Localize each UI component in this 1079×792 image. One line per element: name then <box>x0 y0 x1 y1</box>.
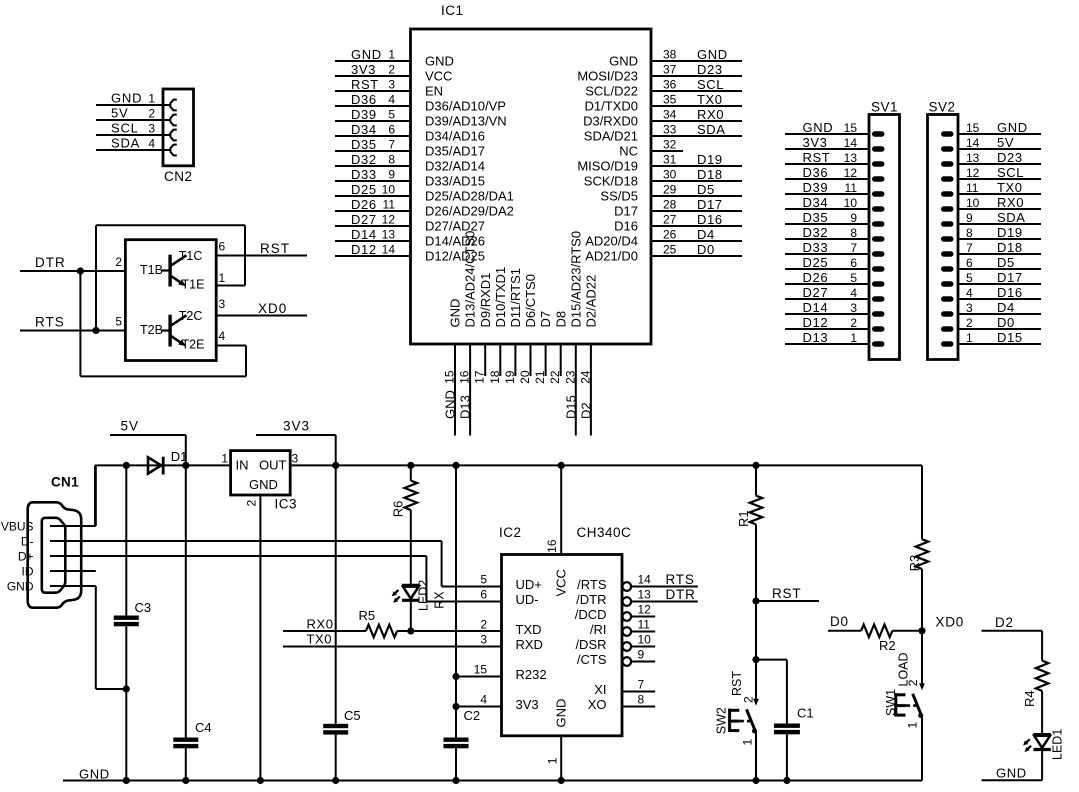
svg-text:R232: R232 <box>516 667 547 682</box>
svg-text:SV2: SV2 <box>929 100 956 115</box>
svg-text:13: 13 <box>638 588 652 602</box>
svg-text:/DCD: /DCD <box>575 607 607 622</box>
svg-text:14: 14 <box>844 136 858 150</box>
svg-text:30: 30 <box>663 168 677 182</box>
svg-text:D18: D18 <box>997 240 1023 255</box>
svg-text:19: 19 <box>503 370 517 384</box>
svg-text:IN: IN <box>236 458 249 473</box>
svg-text:9: 9 <box>638 648 645 662</box>
svg-text:TX0: TX0 <box>307 631 333 646</box>
svg-text:1: 1 <box>388 48 395 62</box>
svg-text:IC2: IC2 <box>499 525 522 540</box>
svg-text:LED2: LED2 <box>417 580 431 611</box>
svg-text:XI: XI <box>594 682 606 697</box>
svg-text:SDA: SDA <box>111 136 140 151</box>
svg-text:D17: D17 <box>614 204 638 219</box>
svg-text:DTR: DTR <box>35 255 66 270</box>
svg-text:/DTR: /DTR <box>576 592 606 607</box>
svg-text:CH340C: CH340C <box>577 525 632 540</box>
svg-text:D19: D19 <box>997 225 1023 240</box>
svg-text:C2: C2 <box>464 708 481 723</box>
svg-text:R3: R3 <box>907 555 922 572</box>
svg-text:3V3: 3V3 <box>516 697 539 712</box>
svg-text:D27: D27 <box>351 212 377 227</box>
svg-text:D35/AD17: D35/AD17 <box>425 144 485 159</box>
svg-text:D34: D34 <box>803 195 829 210</box>
svg-text:2: 2 <box>245 500 259 507</box>
svg-text:3V3: 3V3 <box>283 419 310 434</box>
svg-text:SW2: SW2 <box>714 707 728 734</box>
svg-text:D7: D7 <box>538 311 553 328</box>
svg-text:D16: D16 <box>997 285 1023 300</box>
svg-text:29: 29 <box>663 183 677 197</box>
svg-text:D14: D14 <box>803 300 829 315</box>
svg-text:4: 4 <box>966 286 973 300</box>
svg-text:AD20/D4: AD20/D4 <box>585 234 638 249</box>
svg-text:IC1: IC1 <box>441 3 464 18</box>
svg-text:D0: D0 <box>830 614 849 629</box>
svg-text:R5: R5 <box>359 608 376 623</box>
svg-text:RST: RST <box>803 150 831 165</box>
svg-text:4: 4 <box>148 137 155 151</box>
svg-text:D25/AD28/DA1: D25/AD28/DA1 <box>425 189 514 204</box>
svg-text:D36: D36 <box>803 165 829 180</box>
svg-text:D39: D39 <box>351 107 377 122</box>
svg-text:D12: D12 <box>803 315 829 330</box>
svg-text:/RI: /RI <box>590 622 607 637</box>
svg-text:34: 34 <box>663 108 677 122</box>
svg-text:6: 6 <box>219 240 226 254</box>
svg-text:NC: NC <box>619 144 638 159</box>
svg-text:D32/AD14: D32/AD14 <box>425 159 485 174</box>
svg-text:LOAD: LOAD <box>897 652 911 686</box>
svg-text:15: 15 <box>966 121 980 135</box>
svg-text:D13: D13 <box>458 395 473 419</box>
svg-text:8: 8 <box>638 693 645 707</box>
svg-text:D18: D18 <box>697 167 723 182</box>
svg-text:D25: D25 <box>351 182 377 197</box>
svg-text:SDA: SDA <box>997 210 1026 225</box>
svg-text:GND: GND <box>803 120 834 135</box>
svg-text:D39: D39 <box>803 180 829 195</box>
svg-text:5: 5 <box>115 315 122 329</box>
svg-text:10: 10 <box>844 196 858 210</box>
svg-text:8: 8 <box>388 153 395 167</box>
svg-text:D39/AD13/VN: D39/AD13/VN <box>425 114 507 129</box>
svg-text:D33/AD15: D33/AD15 <box>425 174 485 189</box>
svg-text:GND: GND <box>425 54 454 69</box>
svg-text:7: 7 <box>638 678 645 692</box>
svg-text:4: 4 <box>480 693 487 707</box>
svg-text:22: 22 <box>548 370 562 384</box>
svg-text:GND: GND <box>609 54 638 69</box>
svg-text:7: 7 <box>966 241 973 255</box>
svg-text:D1: D1 <box>171 449 188 464</box>
svg-text:1: 1 <box>740 739 754 746</box>
svg-text:T1C: T1C <box>179 249 203 263</box>
svg-text:T2B: T2B <box>140 323 163 337</box>
svg-text:RX0: RX0 <box>997 195 1024 210</box>
svg-text:23: 23 <box>563 370 577 384</box>
svg-text:D0: D0 <box>997 315 1015 330</box>
svg-text:3: 3 <box>292 452 299 466</box>
svg-text:7: 7 <box>850 241 857 255</box>
svg-text:OUT: OUT <box>259 458 287 473</box>
svg-text:C5: C5 <box>344 708 361 723</box>
svg-text:D2/AD22: D2/AD22 <box>584 275 599 328</box>
svg-text:14: 14 <box>638 573 652 587</box>
svg-text:11: 11 <box>845 181 858 195</box>
svg-text:7: 7 <box>388 138 395 152</box>
svg-text:T1B: T1B <box>140 263 163 277</box>
svg-text:25: 25 <box>663 243 677 257</box>
svg-text:CN2: CN2 <box>164 169 193 184</box>
svg-text:1: 1 <box>148 92 155 106</box>
svg-text:GND: GND <box>79 766 110 781</box>
svg-text:1: 1 <box>966 331 973 345</box>
svg-text:4: 4 <box>388 93 395 107</box>
svg-text:D35: D35 <box>351 137 377 152</box>
svg-text:TX0: TX0 <box>697 92 723 107</box>
svg-text:GND: GND <box>111 91 142 106</box>
svg-text:SDA/D21: SDA/D21 <box>584 129 638 144</box>
svg-text:D13/AD24/CTS0: D13/AD24/CTS0 <box>463 231 478 328</box>
svg-text:RX: RX <box>433 591 447 609</box>
svg-text:DTR: DTR <box>666 587 696 602</box>
svg-text:4: 4 <box>219 329 226 343</box>
svg-text:R6: R6 <box>391 501 406 518</box>
svg-text:38: 38 <box>663 48 677 62</box>
svg-text:11: 11 <box>383 198 396 212</box>
svg-text:D33: D33 <box>351 167 377 182</box>
svg-text:D34: D34 <box>351 122 377 137</box>
svg-text:D4: D4 <box>697 227 715 242</box>
svg-text:VCC: VCC <box>553 569 568 596</box>
svg-text:XD0: XD0 <box>935 615 964 630</box>
svg-text:SW1: SW1 <box>884 689 898 716</box>
svg-text:9: 9 <box>966 211 973 225</box>
svg-text:5: 5 <box>850 271 857 285</box>
svg-text:2: 2 <box>480 618 487 632</box>
svg-text:5: 5 <box>388 108 395 122</box>
svg-text:SCL: SCL <box>111 121 139 136</box>
svg-text:GND: GND <box>351 47 382 62</box>
svg-text:SDA: SDA <box>697 122 726 137</box>
svg-text:15: 15 <box>844 121 858 135</box>
svg-text:12: 12 <box>966 166 980 180</box>
svg-text:D11/RTS1: D11/RTS1 <box>508 268 523 328</box>
svg-text:C4: C4 <box>195 720 212 735</box>
svg-text:8: 8 <box>966 226 973 240</box>
svg-text:C3: C3 <box>135 600 152 615</box>
svg-text:D12: D12 <box>351 242 377 257</box>
svg-text:D1/TXD0: D1/TXD0 <box>585 99 638 114</box>
svg-text:32: 32 <box>663 138 677 152</box>
svg-text:RX0: RX0 <box>697 107 724 122</box>
svg-text:D36: D36 <box>351 92 377 107</box>
svg-text:TXD: TXD <box>516 622 542 637</box>
svg-text:2: 2 <box>742 696 756 703</box>
svg-text:8: 8 <box>850 226 857 240</box>
svg-text:D9/RXD1: D9/RXD1 <box>478 273 493 328</box>
svg-text:5: 5 <box>480 573 487 587</box>
svg-text:D23: D23 <box>997 150 1023 165</box>
svg-text:IC3: IC3 <box>275 497 298 512</box>
svg-text:MISO/D19: MISO/D19 <box>577 159 638 174</box>
svg-text:3: 3 <box>219 297 226 311</box>
svg-text:2: 2 <box>850 316 857 330</box>
svg-text:D36/AD10/VP: D36/AD10/VP <box>425 99 506 114</box>
svg-text:SV1: SV1 <box>871 100 898 115</box>
svg-text:MOSI/D23: MOSI/D23 <box>577 69 638 84</box>
svg-text:5V: 5V <box>121 419 140 434</box>
svg-text:RST: RST <box>260 241 290 256</box>
svg-text:3: 3 <box>388 78 395 92</box>
svg-text:26: 26 <box>663 228 677 242</box>
svg-text:D4: D4 <box>997 300 1015 315</box>
svg-text:GND: GND <box>553 699 568 728</box>
svg-text:D6/CTS0: D6/CTS0 <box>523 274 538 327</box>
svg-text:21: 21 <box>533 370 547 384</box>
svg-text:R1: R1 <box>736 510 751 527</box>
svg-text:35: 35 <box>663 93 677 107</box>
svg-text:CN1: CN1 <box>51 475 79 490</box>
svg-text:D32: D32 <box>351 152 377 167</box>
svg-text:11: 11 <box>638 618 651 632</box>
svg-text:D15: D15 <box>997 330 1023 345</box>
svg-text:/RTS: /RTS <box>577 577 607 592</box>
svg-text:2: 2 <box>148 107 155 121</box>
svg-text:T2E: T2E <box>182 338 205 352</box>
svg-text:3: 3 <box>850 301 857 315</box>
svg-text:D5: D5 <box>697 182 715 197</box>
svg-text:6: 6 <box>388 123 395 137</box>
svg-text:1: 1 <box>546 757 560 764</box>
svg-text:16: 16 <box>545 539 559 553</box>
svg-text:5V: 5V <box>111 106 129 121</box>
svg-text:1: 1 <box>906 722 920 729</box>
svg-text:D13: D13 <box>803 330 829 345</box>
svg-text:37: 37 <box>663 63 677 77</box>
svg-text:D26: D26 <box>351 197 377 212</box>
svg-text:27: 27 <box>663 213 677 227</box>
svg-text:SCL: SCL <box>997 165 1024 180</box>
svg-text:D16: D16 <box>614 219 638 234</box>
svg-text:3: 3 <box>148 122 155 136</box>
svg-text:D17: D17 <box>697 197 723 212</box>
svg-text:10: 10 <box>382 183 396 197</box>
svg-text:SCK/D18: SCK/D18 <box>584 174 638 189</box>
svg-text:RST: RST <box>351 77 379 92</box>
svg-text:RXD: RXD <box>516 637 543 652</box>
svg-text:10: 10 <box>966 196 980 210</box>
svg-text:13: 13 <box>844 151 858 165</box>
svg-text:GND: GND <box>997 120 1028 135</box>
svg-text:1: 1 <box>221 452 228 466</box>
svg-text:/DSR: /DSR <box>575 637 606 652</box>
svg-text:RST: RST <box>730 671 744 696</box>
svg-text:RST: RST <box>772 586 801 601</box>
svg-text:T1E: T1E <box>182 278 205 292</box>
svg-text:14: 14 <box>382 243 396 257</box>
svg-text:36: 36 <box>663 78 677 92</box>
svg-text:GND: GND <box>996 766 1027 781</box>
svg-text:13: 13 <box>966 151 980 165</box>
svg-text:TX0: TX0 <box>997 180 1023 195</box>
svg-text:11: 11 <box>966 181 979 195</box>
svg-text:D2: D2 <box>578 402 593 419</box>
svg-text:/CTS: /CTS <box>577 652 607 667</box>
svg-text:D19: D19 <box>697 152 723 167</box>
svg-text:D17: D17 <box>997 270 1023 285</box>
svg-text:3: 3 <box>966 301 973 315</box>
svg-text:VBUS: VBUS <box>1 519 34 533</box>
svg-text:C1: C1 <box>797 706 814 721</box>
svg-text:24: 24 <box>578 370 592 384</box>
svg-text:20: 20 <box>518 370 532 384</box>
svg-text:AD21/D0: AD21/D0 <box>585 249 638 264</box>
svg-text:D15: D15 <box>563 395 578 419</box>
svg-text:1: 1 <box>850 331 857 345</box>
svg-text:28: 28 <box>663 198 677 212</box>
svg-text:2: 2 <box>966 316 973 330</box>
svg-text:15: 15 <box>443 370 457 384</box>
svg-text:D8: D8 <box>553 311 568 328</box>
svg-text:15: 15 <box>474 663 488 677</box>
svg-text:VCC: VCC <box>425 69 452 84</box>
svg-text:D16: D16 <box>697 212 723 227</box>
svg-text:GND: GND <box>249 477 278 492</box>
svg-text:D26: D26 <box>803 270 829 285</box>
svg-text:6: 6 <box>480 588 487 602</box>
svg-text:D23: D23 <box>697 62 723 77</box>
svg-text:9: 9 <box>388 168 395 182</box>
svg-text:D34/AD16: D34/AD16 <box>425 129 485 144</box>
svg-text:D2: D2 <box>995 615 1014 630</box>
svg-text:16: 16 <box>458 370 472 384</box>
svg-text:ID: ID <box>22 564 34 578</box>
svg-text:LED1: LED1 <box>1050 729 1064 760</box>
svg-text:XO: XO <box>588 697 607 712</box>
svg-text:3: 3 <box>480 633 487 647</box>
svg-text:5V: 5V <box>997 135 1014 150</box>
svg-text:RX0: RX0 <box>307 616 334 631</box>
svg-text:D14: D14 <box>351 227 377 242</box>
svg-text:RTS: RTS <box>666 572 695 587</box>
svg-text:9: 9 <box>850 211 857 225</box>
svg-text:R4: R4 <box>1022 690 1037 707</box>
svg-text:EN: EN <box>425 84 443 99</box>
svg-text:D33: D33 <box>803 240 829 255</box>
svg-text:12: 12 <box>638 603 652 617</box>
svg-text:6: 6 <box>850 256 857 270</box>
svg-text:5: 5 <box>966 271 973 285</box>
svg-text:SCL/D22: SCL/D22 <box>585 84 638 99</box>
svg-text:2: 2 <box>388 63 395 77</box>
svg-text:12: 12 <box>844 166 858 180</box>
svg-text:D5: D5 <box>997 255 1015 270</box>
svg-text:GND: GND <box>7 579 34 593</box>
svg-text:D32: D32 <box>803 225 829 240</box>
svg-text:10: 10 <box>638 633 652 647</box>
svg-text:GND: GND <box>448 299 463 328</box>
svg-text:D-: D- <box>21 534 34 548</box>
svg-text:1: 1 <box>219 271 226 285</box>
svg-text:UD+: UD+ <box>516 577 542 592</box>
svg-text:3V3: 3V3 <box>803 135 828 150</box>
svg-text:6: 6 <box>966 256 973 270</box>
svg-text:R2: R2 <box>879 638 896 653</box>
svg-text:D0: D0 <box>697 242 715 257</box>
svg-text:D35: D35 <box>803 210 829 225</box>
svg-text:D+: D+ <box>18 549 34 563</box>
svg-text:4: 4 <box>850 286 857 300</box>
svg-text:SCL: SCL <box>697 77 724 92</box>
svg-text:D3/RXD0: D3/RXD0 <box>583 114 638 129</box>
svg-text:UD-: UD- <box>516 592 539 607</box>
svg-text:GND: GND <box>697 47 728 62</box>
svg-text:D15/AD23/RTS0: D15/AD23/RTS0 <box>568 231 583 328</box>
svg-text:SS/D5: SS/D5 <box>600 189 638 204</box>
svg-text:D25: D25 <box>803 255 829 270</box>
svg-text:D26/AD29/DA2: D26/AD29/DA2 <box>425 204 514 219</box>
svg-text:2: 2 <box>115 255 122 269</box>
svg-text:GND: GND <box>443 390 458 419</box>
svg-text:D27: D27 <box>803 285 829 300</box>
svg-text:D10/TXD1: D10/TXD1 <box>493 267 508 328</box>
svg-text:XD0: XD0 <box>258 301 287 316</box>
svg-text:3V3: 3V3 <box>351 62 376 77</box>
svg-text:14: 14 <box>966 136 980 150</box>
svg-text:12: 12 <box>382 213 396 227</box>
svg-text:17: 17 <box>473 370 487 384</box>
svg-text:RTS: RTS <box>35 315 65 330</box>
svg-text:33: 33 <box>663 123 677 137</box>
svg-text:18: 18 <box>488 370 502 384</box>
svg-text:31: 31 <box>663 153 677 167</box>
svg-text:T2C: T2C <box>179 309 203 323</box>
svg-text:13: 13 <box>382 228 396 242</box>
